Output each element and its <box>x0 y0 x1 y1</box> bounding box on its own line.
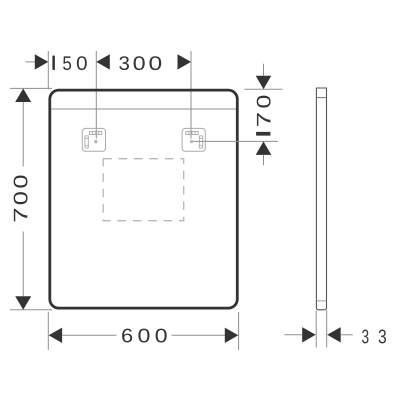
dim 33 right extension line <box>326 310 328 347</box>
dim 170 bottom extension line (from right bracket) <box>194 140 279 142</box>
extension line between 150 and 300 (to left bracket) <box>95 51 97 139</box>
label 300 <box>119 56 161 70</box>
arrow dim 33 left-pointing <box>327 327 341 342</box>
dim 33 left extension line <box>315 310 317 347</box>
dim line 700 lower segment <box>22 232 24 297</box>
arrow dim 300 left-pointing <box>96 54 110 69</box>
label 150 <box>52 56 86 70</box>
dim 170 top leader <box>263 64 265 76</box>
mirror front view outer outline <box>50 90 238 308</box>
side view bottom divider <box>316 300 326 302</box>
label 700 rotated <box>14 176 28 222</box>
dim 33 right leader <box>341 334 353 336</box>
arrow dim 33 right-pointing <box>302 327 316 342</box>
dim 170 top extension line <box>245 88 283 90</box>
dim line 600 left segment <box>62 334 117 336</box>
dim 170 bottom leader <box>263 155 265 166</box>
dim 33 left leader <box>285 334 304 336</box>
left bracket toothed strip <box>89 131 101 134</box>
arrow dim 700 up-pointing <box>15 89 31 103</box>
arrow dim 700 down-pointing <box>15 296 31 310</box>
right bracket toothed strip <box>186 131 198 134</box>
left bracket center hole <box>94 140 97 143</box>
dim line 700 upper segment <box>22 102 24 167</box>
mirror side view outline <box>316 88 326 310</box>
leader line of dim 150 <box>25 61 35 63</box>
arrow dim 600 left-pointing <box>49 328 63 343</box>
right bracket center hole <box>190 140 193 143</box>
extension line left of dim 150 <box>47 51 49 90</box>
left bracket vertical slot <box>85 136 88 148</box>
dim 600 left extension line <box>47 312 49 350</box>
label 33 <box>362 330 386 344</box>
arrow dim 150 right-pointing <box>35 54 49 69</box>
dim 600 right extension line <box>238 312 240 350</box>
dashed cutout square <box>103 159 184 221</box>
arrow dim 600 right-pointing <box>225 328 239 343</box>
mirror inner horizontal line (light strip) <box>51 108 236 110</box>
right mounting bracket plate <box>182 128 205 151</box>
right bracket vertical slot <box>199 136 202 148</box>
extension line right of 300 (to right bracket) <box>190 51 192 139</box>
arrow dim 170 down-pointing <box>256 76 272 90</box>
dim line 600 right segment <box>172 334 226 336</box>
label 170 rotated <box>256 96 270 136</box>
left mounting bracket plate <box>82 128 105 151</box>
arrow dim 300 right-pointing <box>178 54 192 69</box>
bottom extension line of dim 700 <box>10 309 52 311</box>
side view top divider <box>316 97 326 99</box>
top extension line of dim 700 <box>10 87 52 89</box>
arrow dim 170 up-pointing <box>256 141 272 155</box>
label 600 <box>122 329 167 343</box>
